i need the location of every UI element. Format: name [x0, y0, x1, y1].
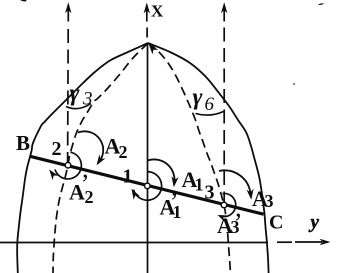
point 2 circle: [65, 162, 71, 168]
svg-text:3: 3: [205, 182, 215, 204]
point 3 circle: [221, 202, 227, 208]
left dashed vertical through point 2: [65, 2, 71, 163]
svg-text:B: B: [16, 131, 30, 155]
svg-text:γ: γ: [193, 85, 203, 111]
point 2 inner arc A'2: [55, 152, 81, 179]
y axis dash beyond curve: [277, 241, 292, 243]
svg-text:γ: γ: [70, 81, 80, 107]
speck dot: [293, 83, 295, 85]
point 1 outer arc A1: [148, 159, 175, 184]
svg-text:X: X: [151, 2, 164, 21]
svg-text:y: y: [309, 212, 320, 233]
y axis arrow: [295, 239, 331, 245]
arrowhead of right chord at apex: [149, 44, 159, 55]
svg-text:1: 1: [173, 202, 182, 222]
point 3 outer arc arrowhead: [247, 189, 254, 200]
point 2 outer arc arrowhead: [97, 155, 106, 166]
svg-text:1: 1: [123, 166, 133, 188]
svg-text:2: 2: [119, 142, 128, 162]
right dashed chord curve apex to 3 and below: [148, 43, 230, 273]
X axis arrow: [144, 3, 150, 22]
point 2 outer arc A2: [78, 131, 103, 163]
svg-text:A: A: [69, 180, 85, 205]
svg-text:2: 2: [52, 138, 62, 160]
X axis vertical line: [147, 43, 149, 273]
thick line B to C: [30, 156, 264, 214]
top-left crop artifact: [20, 0, 27, 1]
svg-text:6: 6: [205, 94, 215, 115]
point 3 inner arc A'3: [221, 193, 236, 216]
point 1 circle: [145, 183, 151, 189]
speck dot top: [318, 3, 324, 5]
svg-text:1: 1: [195, 174, 204, 194]
left dashed chord curve apex to 2 and below: [53, 43, 148, 273]
svg-text:C: C: [269, 212, 283, 234]
point 3 inner arc arrowhead: [218, 215, 227, 221]
y axis horizontal line: [0, 242, 268, 244]
point 1 inner arc arrowhead: [132, 189, 140, 200]
X axis top dash: [146, 28, 148, 38]
gammaB angle arc: [196, 112, 224, 116]
dome curve right branch: [148, 43, 269, 273]
point 1 outer arc arrowhead: [172, 176, 179, 187]
svg-text:2: 2: [85, 187, 94, 207]
point 1 inner arc A'1: [134, 172, 162, 201]
point 3 outer arc A3: [219, 170, 251, 194]
point 2 inner arc arrowhead: [49, 170, 58, 181]
dome curve left branch: [17, 43, 148, 273]
svg-text:3: 3: [265, 191, 274, 211]
right dashed vertical through point 3: [221, 2, 227, 203]
gamma3 angle arc: [66, 104, 91, 109]
svg-text:3: 3: [231, 217, 240, 237]
svg-text:3: 3: [82, 89, 93, 110]
